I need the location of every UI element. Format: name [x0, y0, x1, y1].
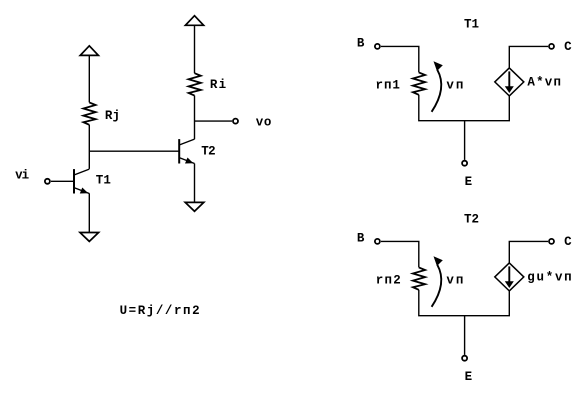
svg-text:A*vп: A*vп — [527, 75, 561, 89]
svg-text:U=Rj//rп2: U=Rj//rп2 — [120, 304, 200, 318]
svg-text:T1: T1 — [464, 17, 479, 31]
svg-text:T2: T2 — [464, 212, 479, 226]
svg-text:vi: vi — [15, 169, 29, 183]
svg-text:B: B — [357, 37, 365, 51]
svg-text:rп1: rп1 — [376, 79, 400, 93]
svg-text:E: E — [465, 370, 473, 384]
svg-text:vп: vп — [446, 79, 463, 93]
svg-text:vo: vo — [256, 115, 272, 129]
svg-text:C: C — [564, 235, 572, 249]
svg-text:rп2: rп2 — [376, 274, 401, 288]
svg-text:Rj: Rj — [105, 109, 120, 123]
svg-text:B: B — [357, 232, 365, 246]
svg-text:E: E — [465, 175, 473, 189]
svg-text:T2: T2 — [201, 144, 216, 158]
svg-text:Ri: Ri — [210, 78, 226, 92]
svg-text:C: C — [564, 40, 572, 54]
svg-text:T1: T1 — [96, 173, 111, 187]
svg-text:gu*vп: gu*vп — [527, 270, 571, 284]
svg-text:vп: vп — [446, 274, 463, 288]
